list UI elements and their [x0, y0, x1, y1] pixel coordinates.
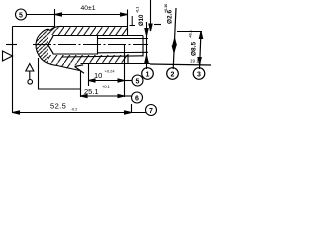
part: top outer line: [62, 26, 128, 28]
leader from balloon 5: [27, 14, 55, 16]
svg-text:52.5: 52.5: [50, 102, 66, 111]
arrow right of 40±1: [121, 13, 128, 16]
left extension for 52.5: vertical x12.5: [12, 27, 14, 114]
finish symbol circle: [28, 80, 33, 85]
svg-text:+0.16: +0.16: [164, 4, 168, 13]
svg-text:+0.1: +0.1: [188, 29, 193, 38]
balloon 5 right: [132, 75, 143, 86]
leader arrow at slope (open): [75, 65, 85, 73]
svg-text:Ø10: Ø10: [139, 14, 145, 26]
short ext y31.5: [177, 31, 202, 33]
dim 10 arrows: [89, 79, 96, 82]
part: bottom outer line: [81, 63, 151, 65]
svg-text:5: 5: [136, 78, 140, 85]
svg-text:+0.24: +0.24: [105, 69, 116, 74]
leader dim10 to balloon 5: [125, 80, 133, 82]
svg-text:1: 1: [146, 71, 150, 78]
balloon 5 top-left: [16, 9, 27, 20]
extension line right x127.5: [127, 10, 129, 27]
extension line left x54.5: [54, 9, 56, 28]
datum triangle on left extension: [3, 51, 13, 61]
svg-text:40±1: 40±1: [80, 5, 95, 12]
balloon 2: [167, 68, 179, 80]
finish symbol triangle: [26, 64, 34, 72]
centerline dash-dot: [33, 44, 148, 46]
svg-text:+0.1: +0.1: [102, 84, 111, 89]
balloon 6: [132, 92, 143, 103]
datum tick: [6, 44, 17, 46]
part outline: bottom slope: [57, 66, 80, 71]
balloon 3: [193, 68, 205, 80]
vertical line to balloon 3: [200, 32, 202, 70]
part: hatched bulb: [36, 26, 62, 65]
dim 52.5 line: [13, 112, 146, 114]
left extension for 52.5: horizontal y26.5: [13, 26, 55, 28]
finish symbol stem: [29, 71, 31, 80]
svg-text:3: 3: [197, 71, 201, 78]
arrow up to y55.5 x146.5: [145, 56, 148, 63]
part: inner line y38.5 right part: [98, 38, 148, 40]
part: hatch end vertical x128 bottom: [127, 54, 129, 64]
part: hatched bottom band: [48, 55, 128, 69]
part: nose end vertical x143: [142, 36, 144, 57]
dim 25.1 line: [81, 95, 125, 97]
part: second bore bottom line y52.5 right: [98, 51, 148, 54]
part outline: bulb: [36, 26, 62, 65]
extension right for 52.5: [131, 104, 133, 113]
arrow bottom x199.5: [198, 58, 201, 65]
arrow on x199.5: [199, 32, 202, 39]
svg-text:5: 5: [19, 12, 23, 19]
svg-text:-0.1: -0.1: [136, 7, 140, 13]
dimension 40±1 line: [55, 14, 128, 16]
part: hatched top band: [48, 27, 128, 36]
extension x124.5: [124, 45, 126, 97]
part: bore bottom line left: [53, 53, 99, 55]
balloon 1: [142, 68, 154, 80]
arrow bottom of x150.5: [149, 24, 152, 31]
vertical dim line x146.5: [146, 22, 148, 69]
part: step at x127.5 top: [127, 27, 129, 36]
part: bore top line: [53, 35, 144, 37]
balloon 7: [146, 105, 157, 116]
svg-text:2: 2: [171, 71, 175, 78]
part: white bore slot with cone end: [48, 36, 98, 54]
extension x88.5: [88, 63, 90, 86]
leader polyline from bulb to 25.1 extension: [39, 58, 81, 89]
leader dim25.1 to balloon 6: [125, 95, 132, 97]
svg-text:7: 7: [149, 108, 153, 115]
arrow left of 40±1: [55, 13, 62, 16]
arrow down to y35.5 x146.5: [145, 29, 148, 36]
small dash y24.5: [154, 24, 161, 26]
part: inner line y56.5 band top: [62, 56, 143, 57]
vertical line to balloon 2: [173, 8, 176, 69]
long extension line to right edge: [150, 64, 211, 65]
svg-text:-0.2: -0.2: [71, 107, 79, 112]
svg-text:Ø8.5: Ø8.5: [191, 42, 198, 56]
svg-text:6: 6: [135, 95, 139, 102]
arrows on x173.5: [173, 39, 176, 46]
extension x80.5: [80, 71, 82, 98]
part: bore step vertical x97.5: [97, 36, 99, 55]
datum mark near text A: [130, 16, 136, 26]
extension polyline top right x150.5: [150, 0, 152, 31]
dim 10 line: [89, 80, 125, 82]
bore cone end: [48, 36, 53, 54]
